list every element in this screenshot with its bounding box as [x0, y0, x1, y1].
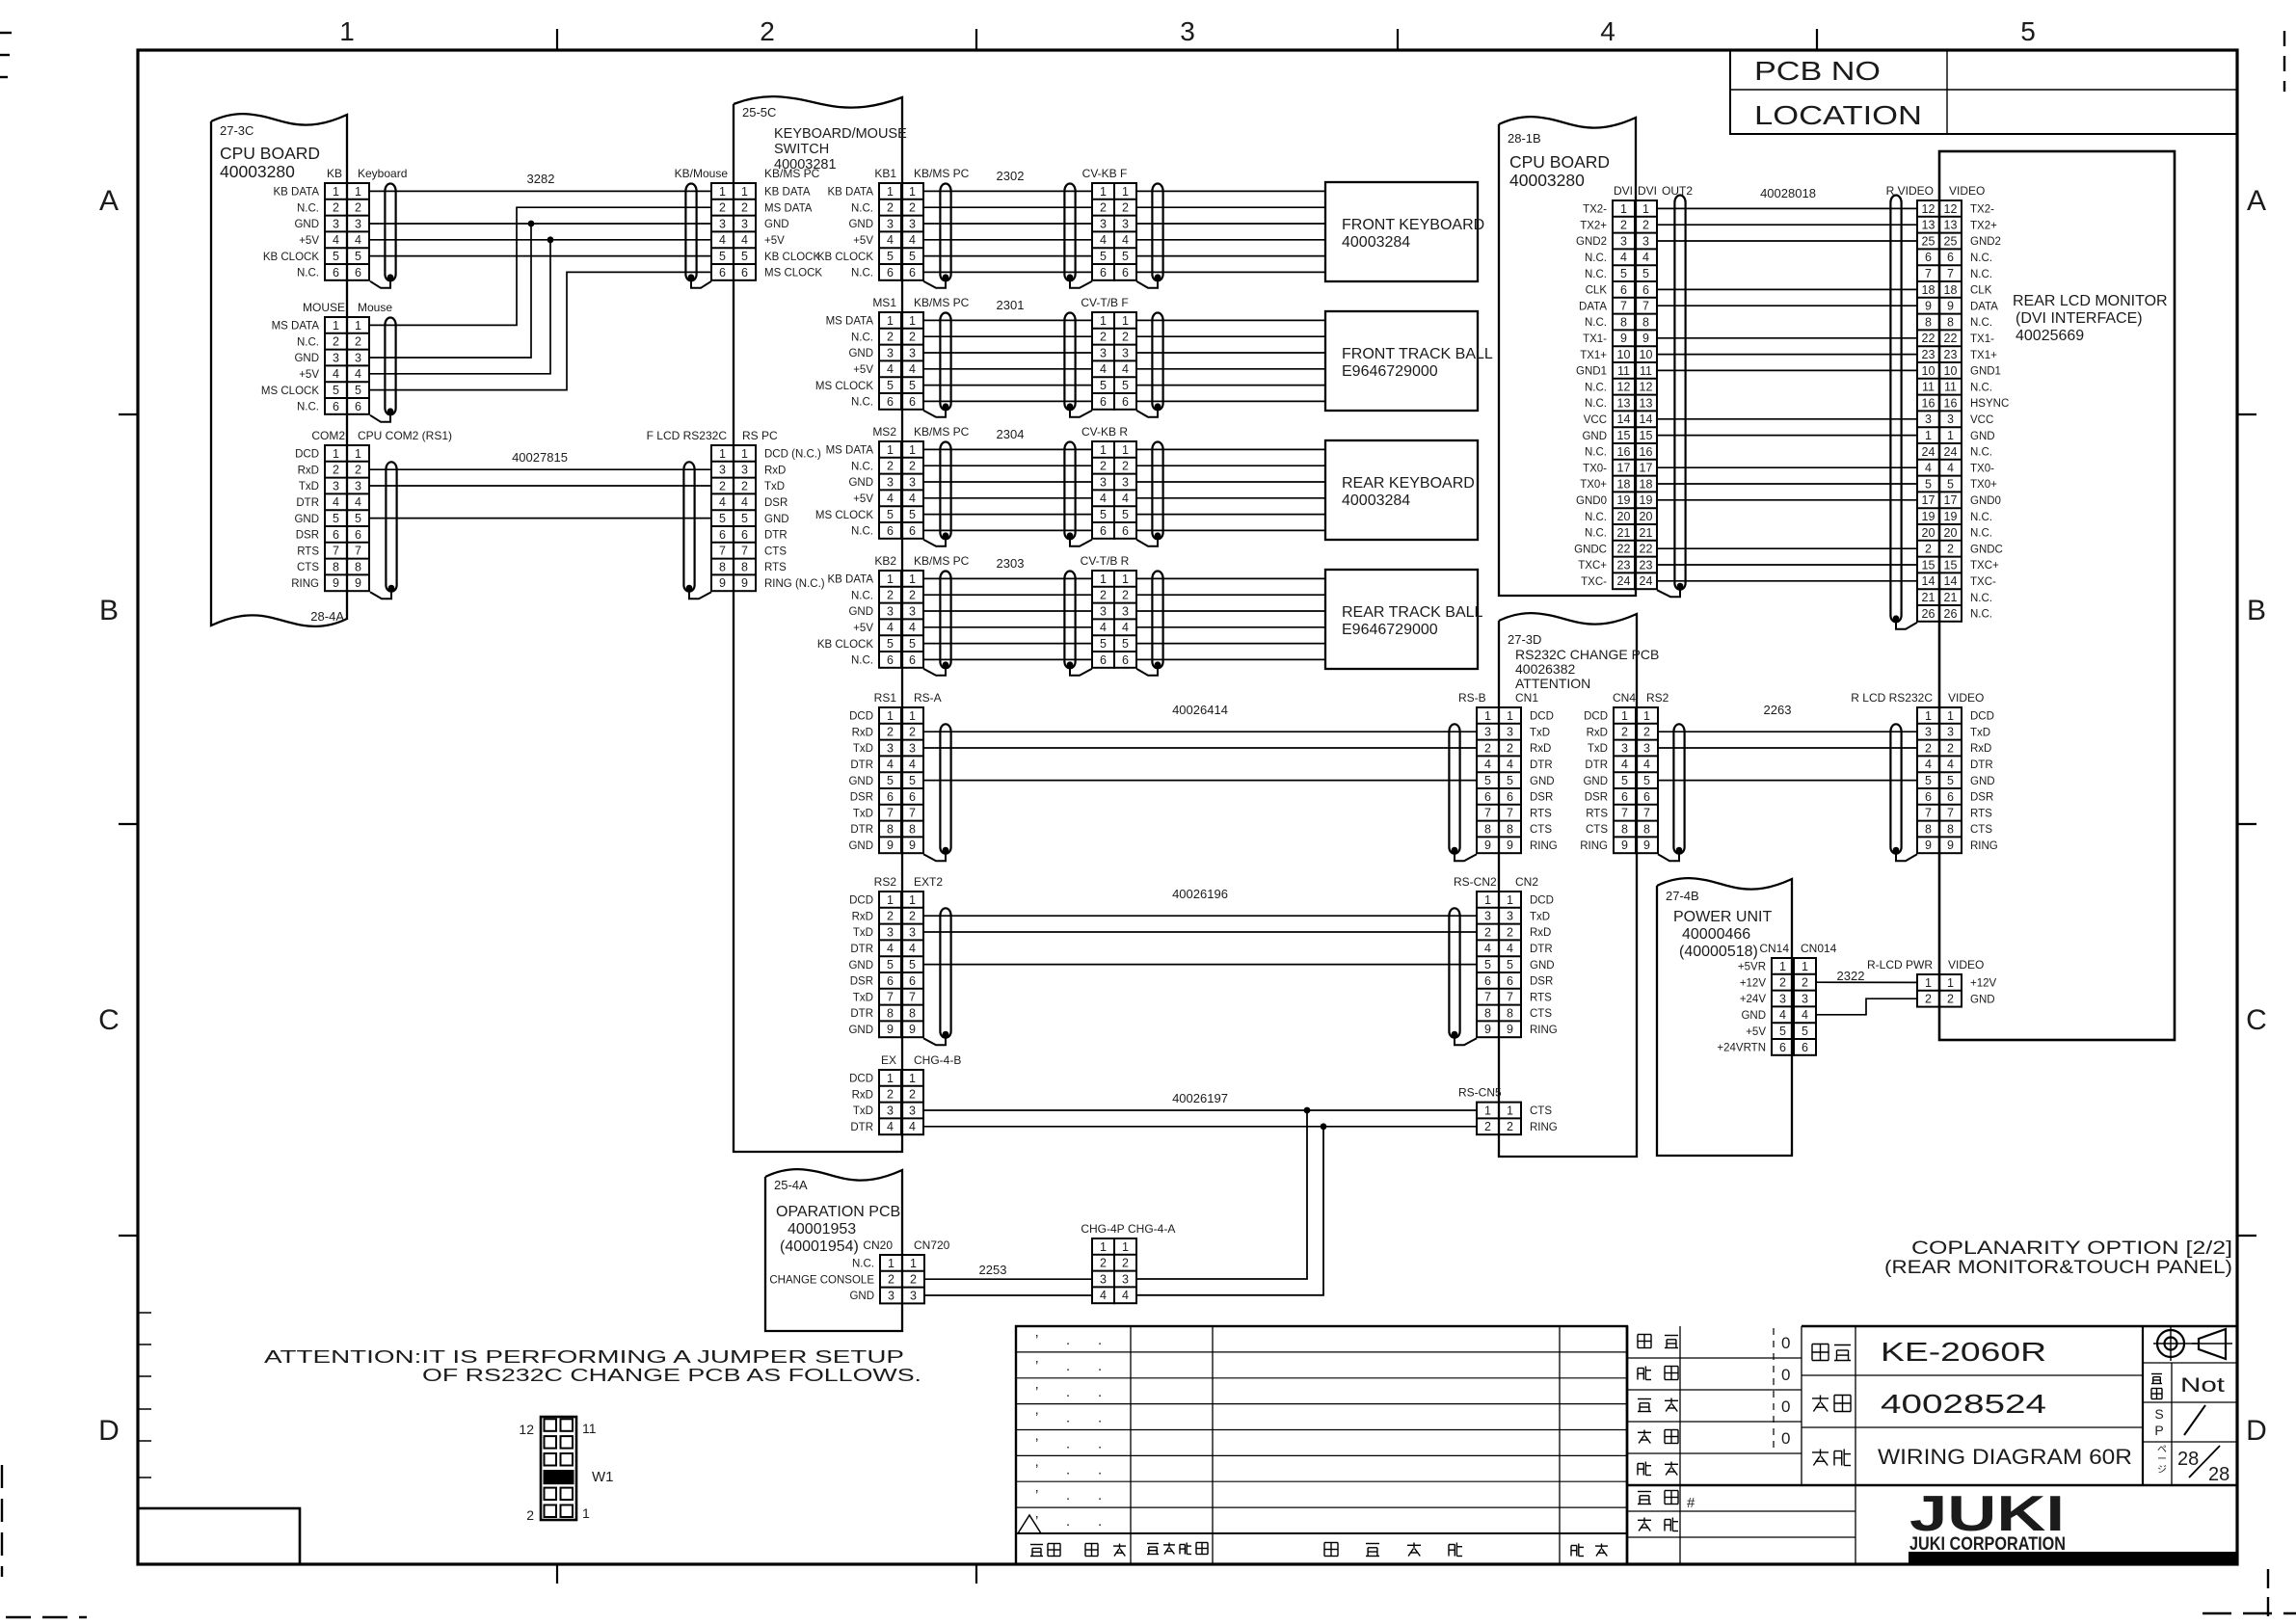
svg-text:MS DATA: MS DATA: [764, 202, 813, 214]
svg-text:4: 4: [1620, 251, 1627, 264]
svg-text:8: 8: [1643, 822, 1650, 836]
svg-text:COM2: COM2: [311, 429, 345, 442]
wire +12V power: [1816, 981, 1917, 983]
connector RS1 / RS-A: [874, 691, 942, 853]
svg-text:17: 17: [1944, 493, 1958, 507]
svg-text:FRONT TRACK BALL: FRONT TRACK BALL: [1342, 346, 1493, 362]
svg-text:5: 5: [1947, 774, 1954, 787]
wires MS2 to CV-KB R: [923, 449, 1092, 530]
corner crop dashes bottom-right: [2203, 1569, 2296, 1619]
svg-text:7: 7: [1947, 267, 1954, 280]
svg-text:N.C.: N.C.: [1970, 382, 1992, 393]
svg-text:DSR: DSR: [850, 976, 873, 988]
svg-text:1: 1: [1947, 976, 1954, 990]
svg-text:1: 1: [1621, 709, 1628, 723]
corner crop dashes top-right: [2283, 31, 2285, 92]
svg-text:CTS: CTS: [1586, 824, 1608, 836]
connector CHG-4P / CHG-4-A: [1081, 1222, 1175, 1303]
svg-text:RS-A: RS-A: [914, 691, 942, 705]
connector R-LCD PWR / VIDEO pwr: [1867, 958, 1984, 1007]
svg-text:1: 1: [333, 185, 339, 199]
svg-text:N.C.: N.C.: [851, 332, 873, 343]
svg-text:.: .: [1066, 1332, 1070, 1348]
svg-text:+5V: +5V: [853, 235, 873, 247]
svg-text:3: 3: [910, 1289, 917, 1302]
svg-text:5: 5: [1507, 958, 1513, 972]
junction GND: [528, 221, 535, 227]
svg-text:25-4A: 25-4A: [774, 1178, 808, 1192]
title value 40028524: [1881, 1389, 2046, 1419]
svg-text:8: 8: [887, 822, 894, 836]
svg-text:3: 3: [887, 346, 894, 359]
svg-text:DTR: DTR: [1585, 759, 1608, 771]
svg-text:5: 5: [887, 379, 894, 392]
svg-text:N.C.: N.C.: [297, 402, 319, 413]
title value WIRING DIAGRAM 60R: [1878, 1445, 2132, 1469]
svg-text:6: 6: [1122, 524, 1129, 538]
connector KB2 / KB/MS PC: [874, 554, 969, 668]
svg-text:5: 5: [333, 512, 339, 525]
shield KB2 cable left: [923, 572, 951, 676]
svg-text:10: 10: [1640, 348, 1653, 361]
svg-text:9: 9: [1507, 1023, 1513, 1036]
svg-text:MS CLOCK: MS CLOCK: [764, 268, 822, 280]
svg-text:3: 3: [1122, 1272, 1129, 1286]
svg-text:6: 6: [1947, 790, 1954, 804]
pin labels MOUSE: [261, 321, 319, 413]
svg-text:RS2: RS2: [874, 875, 897, 889]
svg-text:.: .: [1098, 1461, 1102, 1478]
svg-text:4: 4: [1642, 251, 1649, 264]
board KEYBOARD/MOUSE SWITCH 25-5C outline: [734, 96, 902, 1152]
svg-text:N.C.: N.C.: [1970, 593, 1992, 604]
svg-text:RxD: RxD: [852, 1089, 873, 1101]
svg-text:N.C.: N.C.: [1970, 609, 1992, 621]
svg-text:+5V: +5V: [299, 235, 319, 247]
svg-text:5: 5: [1925, 477, 1932, 491]
svg-text:KB/MS PC: KB/MS PC: [914, 425, 970, 439]
svg-text:5: 5: [719, 512, 726, 525]
svg-text:5: 5: [1925, 774, 1932, 787]
svg-text:7: 7: [1925, 267, 1932, 280]
svg-text:4: 4: [741, 495, 748, 509]
svg-text:6: 6: [887, 266, 894, 280]
svg-text:N.C.: N.C.: [851, 268, 873, 280]
svg-text:CTS: CTS: [764, 546, 787, 557]
svg-text:DATA: DATA: [1579, 301, 1607, 312]
svg-text:VIDEO: VIDEO: [1948, 958, 1984, 972]
svg-text:17: 17: [1640, 462, 1653, 475]
svg-text:DCD: DCD: [1530, 711, 1554, 723]
bottom left stamp box: [138, 1508, 300, 1564]
svg-text:1: 1: [1507, 709, 1513, 723]
svg-text:9: 9: [741, 576, 748, 590]
svg-text:7: 7: [887, 807, 894, 820]
svg-text:6: 6: [1507, 790, 1513, 804]
svg-text:6: 6: [887, 653, 894, 667]
svg-text:1: 1: [1620, 202, 1627, 216]
device box REAR LCD MONITOR outline: [1939, 151, 2175, 1040]
svg-text:GND1: GND1: [1576, 366, 1607, 378]
svg-text:7: 7: [333, 545, 339, 558]
board OPARATION PCB labels: [774, 1178, 900, 1255]
svg-text:N.C.: N.C.: [1585, 398, 1607, 410]
svg-text:18: 18: [1617, 477, 1631, 491]
shield DVI OUT2 cable: [1657, 196, 1686, 598]
svg-text:RTS: RTS: [1530, 992, 1552, 1003]
projection symbols: [2153, 1327, 2232, 1361]
svg-text:CHANGE CONSOLE: CHANGE CONSOLE: [769, 1274, 874, 1286]
svg-text:VIDEO: VIDEO: [1949, 184, 1985, 198]
svg-text:N.C.: N.C.: [1585, 512, 1607, 523]
svg-text:2: 2: [1947, 741, 1954, 755]
wires KB1 to CV-KB F: [923, 191, 1092, 272]
svg-text:3: 3: [887, 475, 894, 489]
svg-text:’: ’: [1035, 1436, 1038, 1452]
cable label 3282: [527, 172, 555, 186]
svg-text:1: 1: [1100, 314, 1107, 328]
svg-text:+5VR: +5VR: [1738, 962, 1766, 973]
svg-text:1: 1: [1484, 893, 1491, 907]
svg-text:40003284: 40003284: [1342, 234, 1410, 251]
svg-text:2: 2: [1122, 460, 1129, 473]
svg-text:GND: GND: [848, 477, 873, 489]
svg-text:3: 3: [333, 217, 339, 230]
wires RS2 to R LCD RS232C: [1658, 732, 1917, 780]
connector R VIDEO / VIDEO dvi: [1886, 184, 1986, 622]
svg-text:.: .: [1098, 1332, 1102, 1348]
svg-text:5: 5: [1484, 958, 1491, 972]
svg-text:2: 2: [909, 201, 916, 215]
svg-text:1: 1: [719, 447, 726, 461]
svg-text:3: 3: [1180, 16, 1195, 46]
svg-text:KB CLOCK: KB CLOCK: [817, 639, 873, 651]
svg-text:GND: GND: [764, 514, 789, 525]
svg-text:VCC: VCC: [1970, 414, 1993, 426]
connector CN4 / RS2: [1613, 691, 1669, 853]
svg-text:2304: 2304: [997, 427, 1025, 441]
wire EX DTR to RS-CN5 RING: [923, 1126, 1477, 1128]
svg-text:2: 2: [1507, 1120, 1513, 1133]
svg-text:6: 6: [1643, 790, 1650, 804]
pin labels KB/MS PC: [764, 187, 822, 280]
svg-text:4: 4: [887, 758, 894, 771]
wires CV-T/B R to device: [1136, 578, 1325, 659]
shield F LCD cable: [683, 462, 711, 599]
svg-text:+5V: +5V: [853, 623, 873, 634]
svg-text:6: 6: [1925, 790, 1932, 804]
svg-text:1: 1: [1507, 1104, 1513, 1117]
svg-text:7: 7: [909, 807, 916, 820]
svg-text:GND0: GND0: [1576, 495, 1607, 507]
svg-text:GND: GND: [848, 219, 873, 230]
svg-text:1: 1: [909, 572, 916, 586]
connector EX / CHG-4-B: [879, 1053, 961, 1134]
svg-text:1: 1: [719, 185, 726, 199]
svg-text:+5V: +5V: [853, 364, 873, 376]
title value KE-2060R: [1881, 1337, 2046, 1367]
cable label 40026196: [1172, 887, 1228, 901]
svg-text:8: 8: [1507, 822, 1513, 836]
svg-text:OPARATION PCB: OPARATION PCB: [776, 1204, 900, 1220]
svg-text:GND2: GND2: [1576, 236, 1607, 248]
svg-text:N.C.: N.C.: [851, 655, 873, 667]
svg-text:5: 5: [1620, 267, 1627, 280]
svg-text:9: 9: [1620, 332, 1627, 345]
column zone numbers: [339, 16, 2036, 46]
svg-text:27-4B: 27-4B: [1666, 889, 1699, 903]
svg-text:TX0+: TX0+: [1970, 479, 1997, 491]
svg-text:N.C.: N.C.: [851, 397, 873, 409]
svg-text:10: 10: [1944, 364, 1958, 378]
svg-text:1: 1: [887, 314, 894, 328]
svg-text:3: 3: [1100, 604, 1107, 618]
svg-text:DSR: DSR: [1970, 792, 1993, 804]
svg-text:1: 1: [1779, 960, 1786, 973]
svg-text:6: 6: [355, 266, 361, 280]
svg-text:(DVI INTERFACE): (DVI INTERFACE): [2016, 310, 2143, 327]
svg-text:3: 3: [1484, 726, 1491, 739]
svg-text:1: 1: [910, 1257, 917, 1270]
svg-text:2: 2: [760, 16, 775, 46]
svg-text:5: 5: [887, 508, 894, 521]
svg-text:9: 9: [909, 839, 916, 852]
svg-text:9: 9: [1925, 300, 1932, 313]
svg-text:GND: GND: [848, 348, 873, 359]
svg-text:3: 3: [1100, 1272, 1107, 1286]
svg-text:N.C.: N.C.: [1970, 253, 1992, 264]
wires CV-T/B F to device: [1136, 320, 1325, 401]
cable label 40027815: [512, 450, 568, 465]
svg-text:A: A: [2247, 185, 2266, 217]
note ATTENTION jumper setup line2: [422, 1366, 921, 1385]
svg-text:OF RS232C CHANGE PCB AS FOLLOW: OF RS232C CHANGE PCB AS FOLLOWS.: [422, 1366, 921, 1385]
svg-text:3: 3: [1642, 234, 1649, 248]
svg-text:4: 4: [1925, 758, 1932, 771]
wires CV-KB F to device: [1136, 191, 1325, 272]
svg-text:5: 5: [741, 250, 748, 263]
svg-text:6: 6: [719, 266, 726, 280]
svg-text:GND: GND: [1582, 431, 1607, 442]
svg-text:3: 3: [909, 346, 916, 359]
svg-text:13: 13: [1617, 396, 1631, 410]
svg-text:DCD: DCD: [849, 1074, 873, 1085]
svg-text:TxD: TxD: [853, 992, 873, 1003]
svg-text:7: 7: [1507, 991, 1513, 1004]
svg-text:GND: GND: [1970, 994, 1995, 1005]
svg-text:1: 1: [1122, 1240, 1129, 1254]
svg-text:GND: GND: [848, 1025, 873, 1036]
pin labels VIDEO pwr: [1970, 978, 1997, 1006]
pin labels RS-CN5: [1530, 1105, 1558, 1133]
svg-text:6: 6: [909, 524, 916, 538]
svg-text:CHG-4P: CHG-4P: [1081, 1222, 1124, 1236]
svg-text:CN2: CN2: [1515, 875, 1538, 889]
svg-text:6: 6: [1925, 251, 1932, 264]
wires RS-A to RS-B: [923, 732, 1477, 780]
svg-text:Not: Not: [2180, 1374, 2225, 1397]
svg-text:8: 8: [1620, 315, 1627, 329]
svg-text:3: 3: [1122, 604, 1129, 618]
svg-text:CTS: CTS: [1530, 1008, 1552, 1020]
svg-text:5: 5: [333, 384, 339, 397]
svg-text:8: 8: [719, 560, 726, 573]
svg-text:6: 6: [887, 524, 894, 538]
svg-text:8: 8: [741, 560, 748, 573]
svg-text:1: 1: [909, 709, 916, 723]
svg-text:RING (N.C.): RING (N.C.): [764, 578, 825, 590]
svg-text:DATA: DATA: [1970, 301, 1998, 312]
device box REAR KEYBOARD: [1325, 440, 1478, 540]
svg-text:8: 8: [1925, 315, 1932, 329]
shield CV-KB F left: [1064, 184, 1092, 288]
svg-text:GND: GND: [849, 1291, 874, 1302]
svg-text:RxD: RxD: [764, 465, 786, 476]
svg-text:1: 1: [1122, 185, 1129, 199]
revision table row marks: [1018, 1332, 1102, 1533]
svg-text:5: 5: [887, 774, 894, 787]
row zone letters right: [2246, 185, 2267, 1447]
svg-text:3: 3: [333, 351, 339, 364]
svg-text:.: .: [1066, 1436, 1070, 1452]
svg-text:5: 5: [333, 250, 339, 263]
connector KB/Mouse / KB/MS PC: [675, 167, 820, 280]
board POWER UNIT labels: [1666, 889, 1772, 960]
svg-text:8: 8: [1947, 315, 1954, 329]
svg-text:DTR: DTR: [850, 759, 873, 771]
svg-text:.: .: [1098, 1436, 1102, 1452]
svg-text:TxD: TxD: [299, 481, 319, 493]
svg-text:RS232C CHANGE PCB: RS232C CHANGE PCB: [1515, 647, 1659, 662]
svg-text:8: 8: [1947, 822, 1954, 836]
svg-text:4: 4: [1484, 758, 1491, 771]
svg-text:3: 3: [909, 741, 916, 755]
svg-text:3: 3: [741, 464, 748, 477]
svg-text:ー: ー: [2157, 1454, 2167, 1465]
svg-text:TX0+: TX0+: [1580, 479, 1607, 491]
svg-text:KB DATA: KB DATA: [764, 187, 811, 199]
svg-text:2: 2: [1100, 1257, 1107, 1270]
svg-text:RING: RING: [1530, 840, 1558, 852]
svg-text:N.C.: N.C.: [851, 526, 873, 538]
svg-text:CPU BOARD: CPU BOARD: [1509, 152, 1610, 172]
connector CN20 / CN720: [863, 1238, 949, 1303]
board RS232C CHANGE PCB labels: [1508, 632, 1659, 691]
svg-text:RING: RING: [1530, 1122, 1558, 1133]
svg-text:2: 2: [333, 464, 339, 477]
svg-text:RS-CN5: RS-CN5: [1458, 1086, 1502, 1100]
wire TxD COM2: [370, 485, 711, 487]
svg-text:7: 7: [1484, 807, 1491, 820]
svg-text:6: 6: [887, 974, 894, 988]
svg-text:4: 4: [1802, 1008, 1808, 1022]
svg-text:7: 7: [1643, 807, 1650, 820]
corner crop dashes top-left: [0, 33, 12, 77]
board RS232C CHANGE PCB 27-3D outline: [1499, 613, 1637, 1157]
svg-text:10: 10: [1617, 348, 1631, 361]
connector MOUSE / Mouse: [303, 301, 392, 414]
svg-text:5: 5: [355, 512, 361, 525]
svg-text:DTR: DTR: [764, 530, 788, 542]
svg-text:3: 3: [1925, 413, 1932, 426]
svg-text:TxD: TxD: [764, 481, 785, 493]
svg-text:2: 2: [1925, 543, 1932, 556]
wire MS DATA: [370, 207, 711, 325]
svg-text:DTR: DTR: [1970, 759, 1993, 771]
svg-text:2: 2: [1507, 925, 1513, 939]
svg-text:N.C.: N.C.: [1585, 447, 1607, 459]
board CPU BOARD 28-1B labels: [1508, 131, 1610, 190]
svg-text:4: 4: [719, 233, 726, 247]
svg-text:24: 24: [1640, 574, 1653, 588]
svg-text:DCD: DCD: [1530, 895, 1554, 907]
scale cell labels: [2151, 1374, 2229, 1486]
svg-text:5: 5: [355, 384, 361, 397]
svg-text:DSR: DSR: [1530, 792, 1553, 804]
svg-text:13: 13: [1944, 219, 1958, 232]
svg-text:REAR LCD MONITOR: REAR LCD MONITOR: [2013, 293, 2168, 309]
svg-text:RTS: RTS: [764, 562, 787, 573]
svg-text:6: 6: [719, 528, 726, 542]
svg-text:2: 2: [910, 1273, 917, 1287]
svg-text:1: 1: [1484, 1104, 1491, 1117]
svg-text:2: 2: [887, 331, 894, 344]
svg-text:26: 26: [1922, 607, 1936, 621]
svg-text:HSYNC: HSYNC: [1970, 398, 2009, 410]
svg-text:PCB NO: PCB NO: [1754, 56, 1881, 86]
device box FRONT TRACK BALL: [1325, 311, 1493, 411]
svg-text:21: 21: [1922, 591, 1936, 604]
svg-text:5: 5: [1621, 774, 1628, 787]
svg-text:21: 21: [1617, 526, 1631, 540]
svg-text:15: 15: [1944, 558, 1958, 572]
svg-text:DTR: DTR: [296, 497, 319, 509]
svg-text:4: 4: [1122, 1289, 1129, 1302]
svg-text:3: 3: [887, 217, 894, 230]
svg-text:2: 2: [888, 1273, 894, 1287]
svg-text:CLK: CLK: [1970, 285, 1992, 297]
svg-text:4: 4: [1122, 621, 1129, 634]
svg-text:CN4: CN4: [1613, 691, 1636, 705]
svg-text:3282: 3282: [527, 172, 555, 186]
pin labels RS1: [848, 711, 873, 852]
wire +5V mouse: [370, 240, 550, 374]
svg-text:8: 8: [1621, 822, 1628, 836]
svg-text:MS DATA: MS DATA: [826, 445, 874, 457]
svg-text:18: 18: [1922, 283, 1936, 297]
svg-text:RS-CN2: RS-CN2: [1454, 875, 1497, 889]
svg-text:REAR KEYBOARD: REAR KEYBOARD: [1342, 475, 1475, 492]
svg-text:27-3C: 27-3C: [220, 123, 254, 138]
svg-text:4: 4: [1100, 492, 1107, 505]
svg-text:2302: 2302: [997, 169, 1025, 183]
svg-text:6: 6: [1621, 790, 1628, 804]
svg-text:4: 4: [355, 367, 361, 381]
svg-text:6: 6: [887, 395, 894, 409]
svg-text:3: 3: [1122, 217, 1129, 230]
svg-text:4: 4: [1122, 362, 1129, 376]
svg-text:GND: GND: [848, 840, 873, 852]
svg-text:SWITCH: SWITCH: [774, 142, 829, 157]
svg-text:2: 2: [1779, 976, 1786, 990]
connector KB1 / KB/MS PC: [874, 167, 969, 280]
svg-text:16: 16: [1640, 445, 1653, 459]
svg-text:2: 2: [887, 1088, 894, 1102]
svg-text:1: 1: [582, 1505, 590, 1521]
svg-text:7: 7: [1484, 991, 1491, 1004]
svg-text:1: 1: [1100, 185, 1107, 199]
svg-text:KB/Mouse: KB/Mouse: [675, 167, 729, 180]
